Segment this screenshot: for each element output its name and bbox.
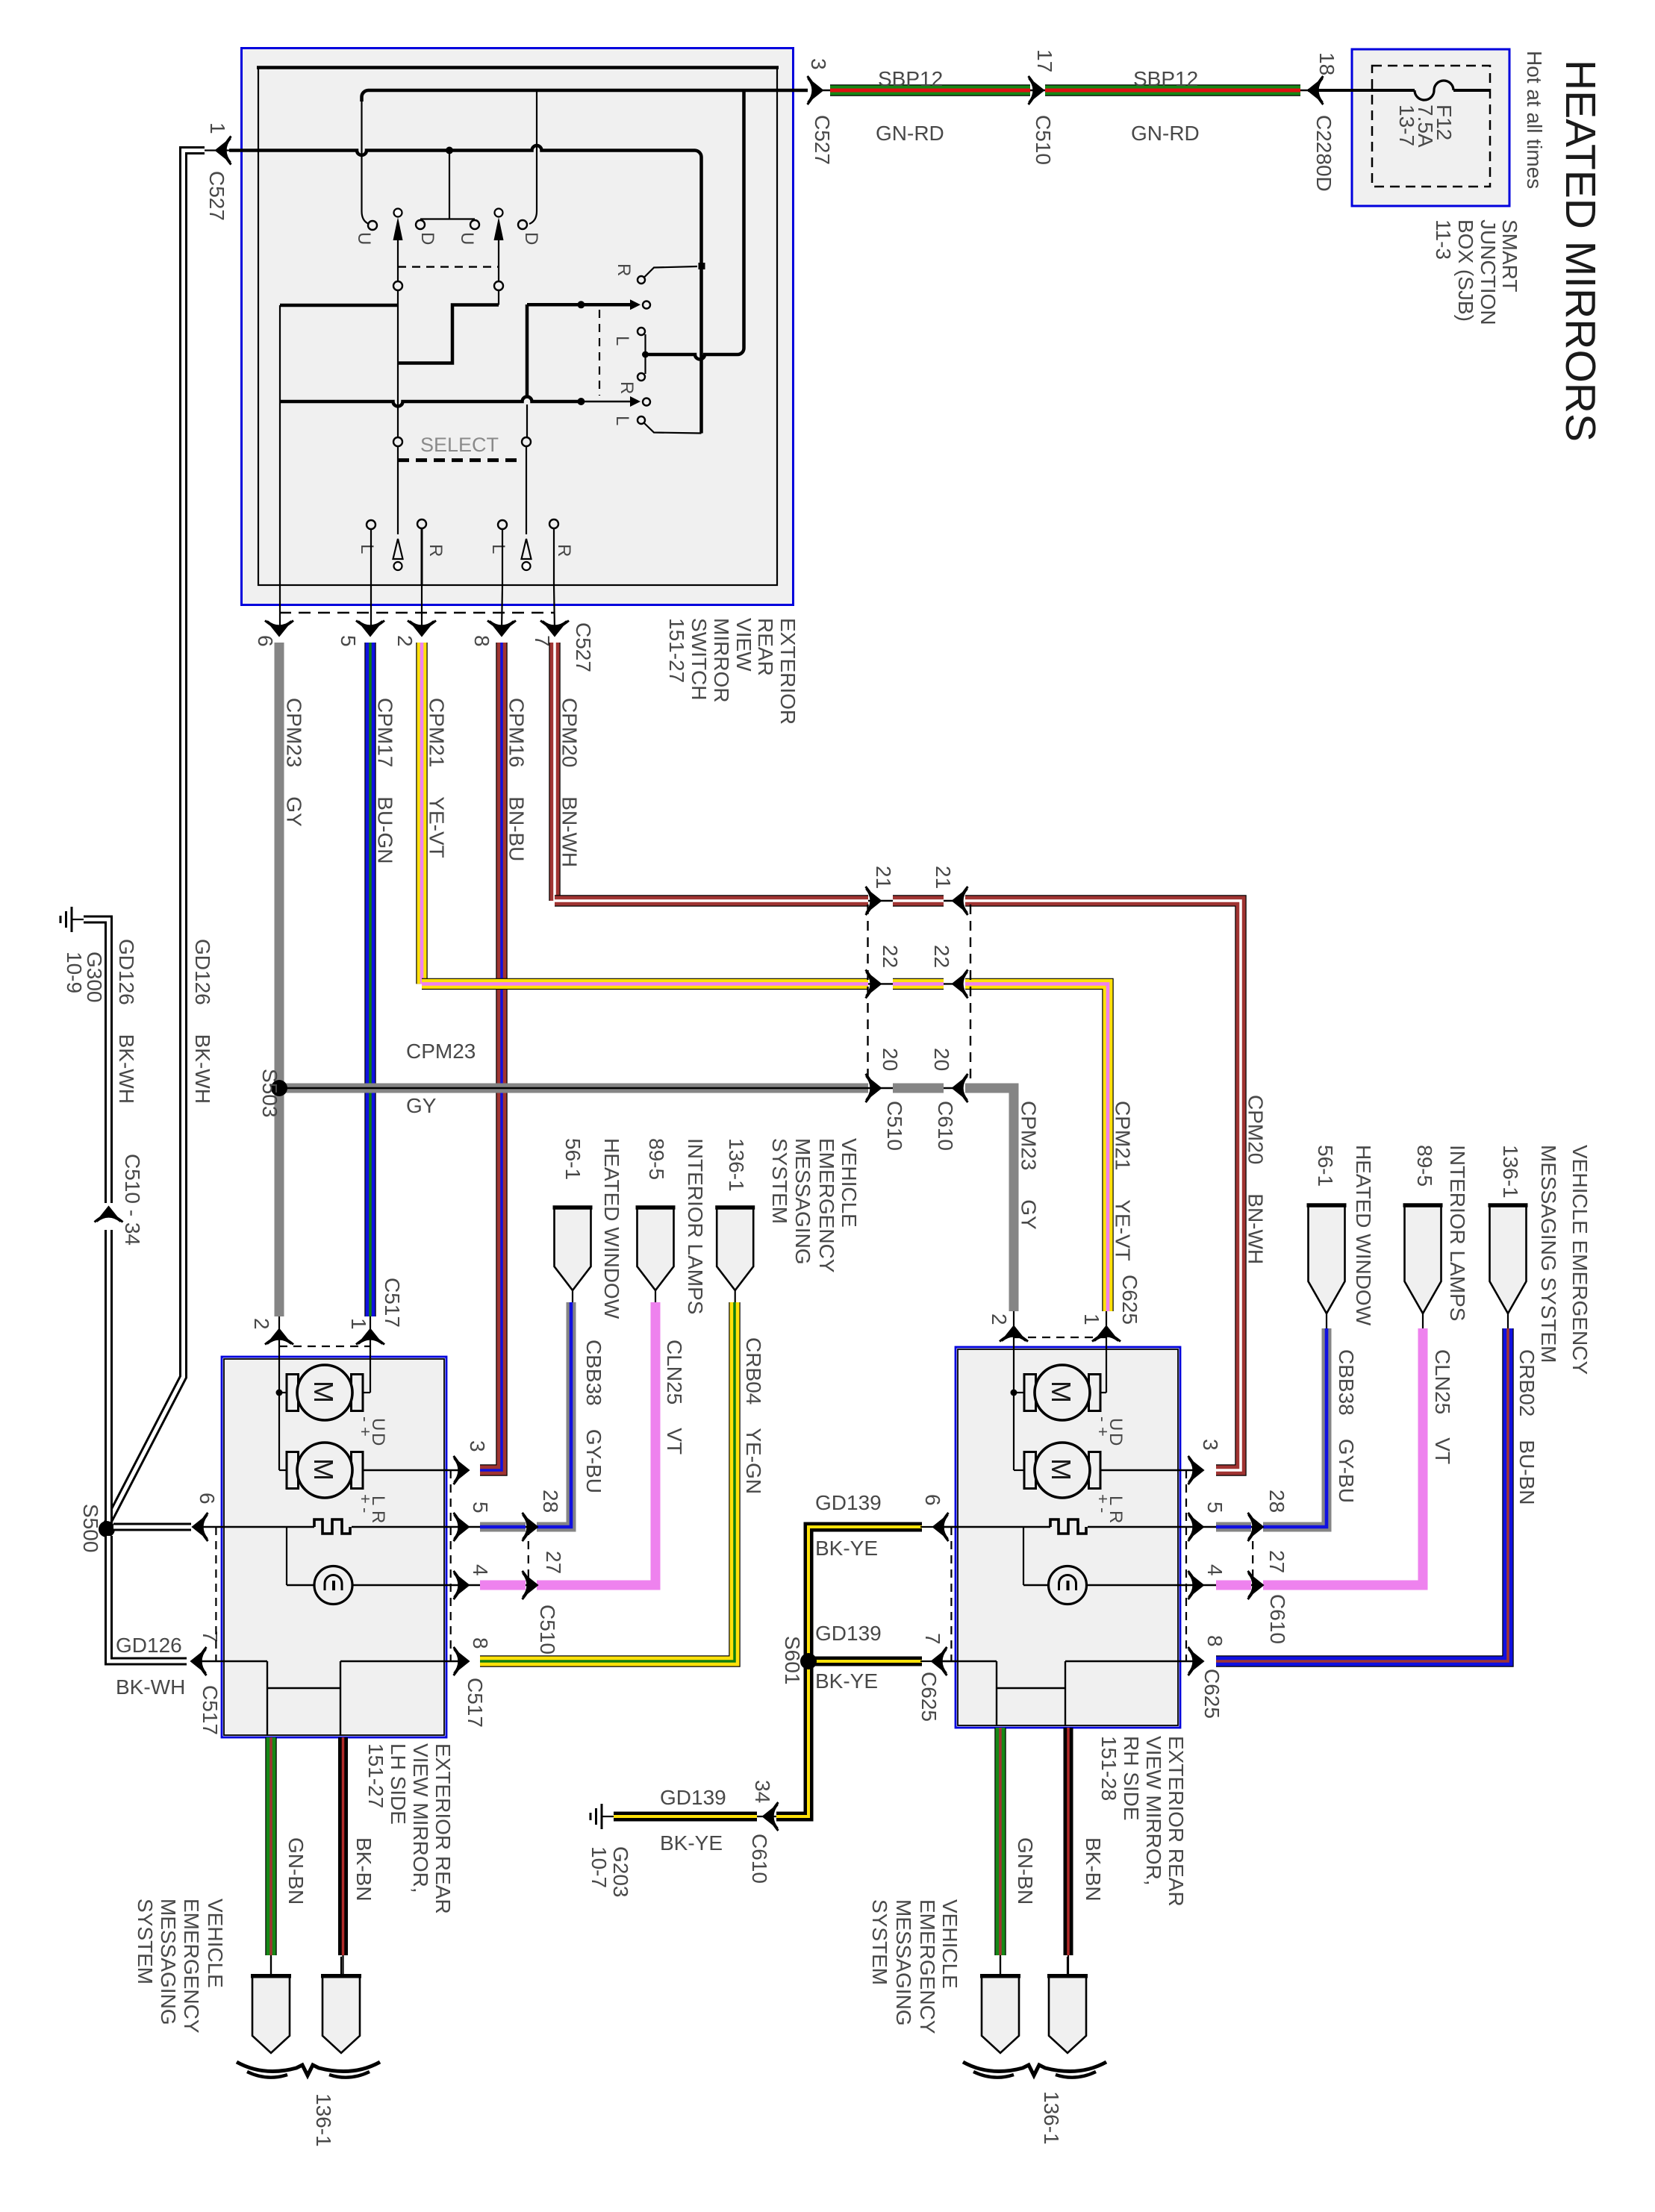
svg-text:2: 2 [988, 1313, 1011, 1325]
off-page connector HEATED WINDOW left [555, 1207, 591, 1290]
svg-text:BK-WH: BK-WH [116, 1675, 185, 1699]
wavy continuation mark right [963, 2062, 1106, 2075]
svg-text:21: 21 [932, 866, 955, 889]
svg-text:C610: C610 [934, 1101, 957, 1151]
wiper UD left [394, 209, 402, 217]
svg-text:20: 20 [930, 1048, 953, 1071]
wire GD139 BK-YE RH pin6 branch [776, 1527, 922, 1816]
off-page connector VEMS LH bottom 1 [270, 1957, 272, 1975]
svg-text:GD139: GD139 [815, 1491, 882, 1514]
gang dashed link UD [398, 266, 499, 267]
exterior rear view mirror RH box [956, 1347, 1180, 1728]
connector C510 pin 17 arrow [1029, 76, 1044, 104]
svg-text:SBP12: SBP12 [878, 67, 943, 90]
wire M2 to pin 3 LH [362, 1469, 463, 1471]
connector C527 pin 5 arrow [356, 621, 384, 637]
svg-text:C517: C517 [381, 1278, 404, 1328]
svg-text:27: 27 [542, 1551, 565, 1574]
svg-text:136-1: 136-1 [312, 2093, 335, 2147]
svg-text:7: 7 [199, 1631, 222, 1643]
wire CPM16 BN-BU vertical [480, 643, 502, 1470]
dashed connector line C510 [867, 905, 868, 1084]
svg-text:SELECT: SELECT [420, 434, 499, 456]
svg-text:8: 8 [1203, 1635, 1227, 1647]
svg-text:3: 3 [1199, 1439, 1222, 1451]
wire middle contacts to pin3 bus [646, 92, 744, 360]
svg-text:151-28: 151-28 [1097, 1736, 1121, 1801]
svg-text:5: 5 [337, 635, 360, 647]
ground G203 [601, 1804, 603, 1829]
wire BK-BN LH mirror to VEMS [338, 1737, 348, 1955]
svg-text:MESSAGING: MESSAGING [892, 1899, 915, 2026]
svg-text:C2280D: C2280D [1312, 115, 1335, 192]
svg-text:6: 6 [254, 635, 277, 647]
wires bottom contacts to connector [370, 529, 372, 585]
connector C610 pin21 arrow [953, 887, 968, 915]
svg-text:M: M [308, 1381, 339, 1403]
svg-text:C527: C527 [811, 115, 834, 165]
wire CPM17 BU-GN to LH mirror pin1 [364, 643, 375, 1316]
svg-text:M: M [1046, 1381, 1076, 1403]
wire CPM23 GY row20 segments [284, 1087, 959, 1089]
wiper2 pivot dot and arrow to L-R contact [577, 398, 585, 405]
svg-text:CRB02 BU-BN: CRB02 BU-BN [1515, 1349, 1539, 1505]
svg-text:6: 6 [921, 1494, 944, 1506]
svg-text:C527: C527 [572, 622, 595, 672]
svg-text:BK-BN: BK-BN [1082, 1837, 1105, 1902]
wire pin3 right drop to D contact [536, 92, 537, 211]
svg-text:R: R [614, 263, 634, 276]
wire GD126 BK-WH from C527 pin1 down to S500 [205, 149, 233, 151]
svg-text:GY: GY [406, 1094, 437, 1117]
svg-text:CPM23 GY: CPM23 GY [283, 698, 306, 827]
svg-text:CBB38 GY-BU: CBB38 GY-BU [1335, 1349, 1358, 1503]
contact circle D right [518, 220, 527, 229]
svg-text:EXTERIOR: EXTERIOR [776, 618, 800, 725]
dashed connector line C610 [970, 905, 971, 1084]
svg-text:7: 7 [921, 1633, 944, 1645]
connector C610 pin 27 arrow [1248, 1571, 1264, 1599]
C517 pin 6 arrow LH [193, 1513, 208, 1541]
lower pivot circles UD [393, 281, 402, 290]
svg-text:R: R [426, 544, 446, 557]
svg-text:89-5: 89-5 [1413, 1145, 1436, 1187]
svg-text:S500: S500 [79, 1504, 102, 1552]
off-page connector VEMS left [717, 1207, 753, 1290]
svg-text:C625: C625 [1200, 1669, 1224, 1719]
LH pin7 pin8 row and notch [197, 1660, 267, 1662]
svg-text:R: R [368, 1510, 388, 1523]
svg-text:L: L [368, 1496, 388, 1505]
svg-text:HEATED WINDOW: HEATED WINDOW [1352, 1145, 1375, 1326]
svg-text:C510 - 34: C510 - 34 [121, 1154, 144, 1246]
svg-text:VEHICLE EMERGENCY: VEHICLE EMERGENCY [1568, 1145, 1592, 1375]
svg-text:MIRROR: MIRROR [710, 618, 733, 703]
smart junction box (SJB) [1352, 49, 1509, 206]
exterior rear view mirror switch box [242, 49, 794, 605]
connector C610 pin22 arrow [953, 969, 968, 998]
C517 pin 1 arrow [370, 1316, 371, 1357]
svg-text:C610: C610 [1266, 1594, 1289, 1644]
off-page connector VEMS RH bottom 1 [1000, 1957, 1001, 1975]
connector C510 pin 28 arrow [523, 1513, 538, 1541]
svg-text:D: D [1106, 1433, 1126, 1446]
upper bus to R contact [526, 304, 529, 398]
svg-text:L: L [612, 416, 632, 425]
contact circle D left [416, 220, 425, 229]
wire CLN25 VT RH pin4 to C610-27 to interior lamps pentagon right [1197, 1584, 1268, 1586]
wire SBP12 GN-RD segment 2 [1045, 84, 1300, 96]
wire GN-BN RH mirror to VEMS [994, 1728, 1006, 1955]
C625 pin 6 arrow RH [920, 1526, 957, 1528]
C517 pin 7 arrow LH [191, 1647, 207, 1675]
svg-text:136-1: 136-1 [725, 1138, 748, 1192]
select circles [393, 437, 402, 446]
dashed connector C517 left [215, 1527, 216, 1661]
wire CPM20 BN-WH vertical [549, 643, 560, 901]
svg-text:GN-BN: GN-BN [1014, 1837, 1037, 1905]
wire switch pin 1 bus with hop loops [229, 146, 702, 434]
svg-text:RH SIDE: RH SIDE [1120, 1736, 1143, 1821]
svg-text:MESSAGING: MESSAGING [157, 1899, 180, 2025]
connector C2280D pin 18 arrow [1308, 76, 1324, 104]
connector C510 pin20 arrow [866, 1074, 882, 1102]
svg-text:GN-RD: GN-RD [1131, 122, 1200, 145]
svg-text:EMERGENCY: EMERGENCY [180, 1899, 203, 2034]
svg-text:22: 22 [879, 945, 902, 968]
svg-text:1: 1 [206, 122, 229, 134]
connector C510 pin 27 arrow [523, 1571, 538, 1599]
connector C510 pin22 arrow [866, 969, 882, 998]
svg-text:151-27: 151-27 [665, 618, 688, 683]
C625 pin 3 arrow RH [1188, 1456, 1204, 1484]
wire S500 down to LH mirror pin7 [109, 1536, 187, 1661]
svg-text:4: 4 [1203, 1564, 1227, 1576]
svg-text:28: 28 [1265, 1490, 1288, 1513]
wire CPM23 GY horizontal S503 to C510-20 [284, 1084, 868, 1093]
dashed connector C510 28-27 [528, 1527, 529, 1585]
splice S601 [800, 1653, 817, 1669]
connector C527 pin 1 arrow [216, 137, 231, 165]
RH motor UD wiring [1013, 1347, 1014, 1470]
svg-text:CPM23: CPM23 [406, 1040, 476, 1063]
splice S503 [271, 1080, 287, 1096]
bridge D-U to pin1 [420, 218, 475, 219]
svg-text:Hot at all times: Hot at all times [1523, 51, 1546, 189]
svg-text:4: 4 [469, 1564, 492, 1576]
heater resistor line RH pins 6-5 [933, 1526, 1050, 1528]
svg-text:C510: C510 [536, 1605, 559, 1655]
gang dashed link LR select [599, 310, 600, 396]
C517 pin 8 arrow LH [454, 1647, 470, 1675]
svg-text:CLN25 VT: CLN25 VT [663, 1340, 686, 1455]
svg-text:D: D [417, 232, 437, 245]
contact circle R top [638, 276, 645, 284]
svg-text:SYSTEM: SYSTEM [868, 1899, 891, 1985]
fuse F12 dashed box [1372, 66, 1490, 187]
svg-text:34: 34 [751, 1780, 774, 1803]
C625 pin 1 arrow [1106, 1311, 1107, 1347]
wire CPM23 GY switch to S503 to LH mirror pin2 [275, 643, 284, 1316]
svg-text:EXTERIOR REAR: EXTERIOR REAR [431, 1743, 455, 1914]
off-page connector VEMS LH bottom 2 [340, 1957, 342, 1975]
svg-text:CPM20 BN-WH: CPM20 BN-WH [1244, 1095, 1268, 1264]
svg-text:1: 1 [347, 1318, 370, 1330]
svg-text:MESSAGING: MESSAGING [791, 1138, 814, 1265]
svg-text:5: 5 [469, 1502, 492, 1513]
wiper UD right [495, 209, 503, 217]
connector C527 pin 6 arrow [265, 621, 293, 637]
svg-text:C610: C610 [748, 1834, 771, 1884]
svg-text:U: U [1106, 1418, 1126, 1431]
C517 pin 2 arrow [278, 1316, 280, 1357]
contact circle U right [470, 220, 479, 229]
svg-text:CPM23 GY: CPM23 GY [1017, 1101, 1041, 1230]
connector C527 pin 2 arrow [408, 621, 436, 637]
svg-text:5: 5 [1203, 1502, 1227, 1513]
select wiper left [397, 446, 399, 534]
contact circles L R middle [638, 328, 645, 335]
svg-text:C625: C625 [1118, 1275, 1141, 1325]
svg-text:VEHICLE: VEHICLE [838, 1138, 861, 1228]
svg-text:CLN25 VT: CLN25 VT [1431, 1349, 1454, 1464]
svg-text:151-27: 151-27 [364, 1743, 387, 1808]
svg-text:3: 3 [466, 1440, 489, 1452]
svg-text:C625: C625 [917, 1672, 941, 1722]
connector C527 pin 3 arrow [808, 76, 823, 104]
svg-text:28: 28 [539, 1490, 562, 1513]
svg-text:BOX (SJB): BOX (SJB) [1454, 219, 1477, 322]
svg-text:VIEW MIRROR,: VIEW MIRROR, [409, 1743, 432, 1893]
connector C527 switch dashed line [279, 612, 555, 613]
svg-text:EMERGENCY: EMERGENCY [815, 1138, 838, 1273]
svg-text:CPM21 YE-VT: CPM21 YE-VT [426, 698, 449, 858]
LH motor UD wiring [278, 1357, 280, 1470]
wire GD139 BK-YE to ground G203 [614, 1812, 757, 1822]
C625 pin 5 arrow RH [1188, 1513, 1204, 1541]
motor M up-down RH [1024, 1375, 1036, 1411]
svg-text:11-3: 11-3 [1432, 219, 1455, 260]
svg-text:D: D [368, 1433, 388, 1446]
wire CLN25 VT LH pin4 to C510-27 to interior lamps pentagon [463, 1584, 542, 1586]
svg-text:6: 6 [196, 1493, 219, 1505]
off-page connector INTERIOR LAMPS left [638, 1207, 674, 1290]
contact circle L bottom [638, 416, 645, 424]
svg-text:17: 17 [1033, 49, 1056, 72]
motor M left-right LH [287, 1452, 299, 1489]
svg-text:13-7: 13-7 [1395, 104, 1418, 146]
wire GN-BN LH mirror to VEMS [265, 1737, 276, 1955]
svg-text:SYSTEM: SYSTEM [768, 1138, 791, 1224]
svg-text:8: 8 [469, 1637, 492, 1649]
svg-text:CRB04 YE-GN: CRB04 YE-GN [742, 1337, 765, 1494]
wire CRB04 YE-GN LH pin8 to VEMS pentagon [480, 1302, 735, 1661]
svg-text:GN-BN: GN-BN [284, 1837, 308, 1905]
svg-text:BK-YE: BK-YE [815, 1669, 878, 1693]
C625 pin 7 arrow RH [920, 1660, 957, 1662]
svg-text:R: R [617, 381, 637, 394]
contact circle U left [368, 221, 377, 230]
svg-text:CPM16 BN-BU: CPM16 BN-BU [505, 698, 529, 861]
heater resistor line LH pins 6-5 [197, 1526, 314, 1528]
svg-text:MESSAGING SYSTEM: MESSAGING SYSTEM [1537, 1145, 1560, 1363]
svg-text:20: 20 [879, 1048, 902, 1071]
C625 pin 2 arrow [1013, 1311, 1014, 1347]
wire CPM21 YE-VT row22 segments [422, 983, 959, 984]
select dashed gang link [398, 458, 520, 462]
svg-text:SYSTEM: SYSTEM [134, 1899, 157, 1984]
connector C610 pin 34 arrow [757, 1816, 776, 1817]
svg-text:56-1: 56-1 [1314, 1145, 1337, 1187]
connector C610 pin20 arrow [953, 1074, 968, 1102]
wire W_A staircase left [397, 290, 399, 437]
svg-text:GD126: GD126 [116, 1634, 182, 1657]
RH pin7 pin8 row and notch [933, 1660, 997, 1662]
svg-text:C517: C517 [464, 1678, 487, 1728]
dashed connector C610 28-27 [1252, 1527, 1253, 1585]
svg-text:SMART: SMART [1498, 219, 1521, 293]
svg-text:LH SIDE: LH SIDE [387, 1743, 410, 1825]
wire W_B2 staircase right [498, 290, 499, 305]
svg-text:136-1: 136-1 [1499, 1145, 1522, 1199]
svg-text:8: 8 [470, 635, 493, 647]
connector C510 pin 34 arrow on ground wire [95, 1207, 123, 1222]
connector C527 pin 8 arrow [487, 621, 516, 637]
wire SBP12 GN-RD segment 1 [823, 90, 1308, 91]
connector C625 dashed top [1014, 1337, 1106, 1338]
svg-text:G203: G203 [609, 1846, 632, 1898]
svg-text:C527: C527 [205, 171, 228, 221]
svg-text:GN-RD: GN-RD [876, 122, 944, 145]
svg-text:1: 1 [1080, 1313, 1103, 1325]
wavy continuation mark left [237, 2062, 380, 2075]
wire CRB02 BU-BN RH pin8 to VEMS pentagon right [1216, 1328, 1508, 1661]
lamp branch RH [1023, 1527, 1024, 1585]
C625 pin 8 arrow RH [1188, 1647, 1204, 1675]
dashed connector C625 right [1185, 1470, 1187, 1661]
connector C527 pin 7 arrow [540, 621, 569, 637]
svg-text:HEATED MIRRORS: HEATED MIRRORS [1556, 60, 1604, 442]
svg-text:L: L [357, 544, 377, 554]
svg-text:C510: C510 [1032, 115, 1055, 165]
svg-text:S601: S601 [781, 1636, 804, 1684]
wire GD126 BK-WH from G300 to S500 [84, 919, 109, 1203]
svg-text:VIEW: VIEW [732, 618, 755, 672]
wire CPM20 BN-WH row21 segments [555, 900, 959, 902]
svg-text:L: L [488, 544, 508, 554]
wire M2 to pin 3 RH [1100, 1469, 1197, 1471]
C517 pin 4 arrow LH [454, 1571, 470, 1599]
dashed connector C625 left [950, 1527, 952, 1661]
wire CPM21 YE-VT vertical [416, 643, 427, 984]
svg-text:2: 2 [393, 635, 417, 647]
svg-text:M: M [308, 1458, 339, 1481]
svg-text:BK-YE: BK-YE [815, 1537, 878, 1560]
svg-text:REAR: REAR [754, 618, 777, 676]
lamp branch LH [286, 1527, 287, 1585]
off-page connector VEMS right [1490, 1205, 1527, 1313]
svg-text:INTERIOR LAMPS: INTERIOR LAMPS [1446, 1145, 1469, 1321]
wire CBB38 GY-BU LH pin5 to C510-28 to heated window pentagon [463, 1526, 542, 1528]
connector C610 pin 28 arrow [1248, 1513, 1264, 1541]
svg-text:56-1: 56-1 [561, 1138, 585, 1180]
bottom contact circles L R L R [367, 520, 375, 529]
motor M up-down LH [287, 1375, 299, 1411]
svg-text:GD126 BK-WH: GD126 BK-WH [191, 939, 214, 1104]
C625 pin 4 arrow RH [1188, 1571, 1204, 1599]
svg-text:EMERGENCY: EMERGENCY [916, 1899, 939, 2034]
dashed connector C517 right [450, 1470, 452, 1661]
svg-text:INTERIOR LAMPS: INTERIOR LAMPS [684, 1138, 707, 1314]
exterior rear view mirror LH box [222, 1357, 446, 1737]
wire BK-BN RH mirror to VEMS [1064, 1728, 1073, 1955]
svg-text:SBP12: SBP12 [1133, 67, 1198, 90]
svg-text:21: 21 [872, 866, 895, 889]
svg-text:JUNCTION: JUNCTION [1477, 219, 1500, 325]
C517 pin 5 arrow LH [454, 1513, 470, 1541]
svg-text:18: 18 [1315, 52, 1338, 75]
svg-text:S503: S503 [258, 1069, 281, 1117]
svg-text:VIEW MIRROR,: VIEW MIRROR, [1142, 1736, 1165, 1886]
svg-text:M: M [1046, 1458, 1076, 1481]
svg-text:R: R [1106, 1510, 1126, 1523]
svg-text:D: D [521, 232, 541, 245]
off-page connector HEATED WINDOW right [1309, 1205, 1345, 1313]
svg-text:U: U [368, 1418, 388, 1431]
connector C517 dashed top [279, 1346, 370, 1347]
splice S500 [99, 1521, 115, 1537]
svg-text:VEHICLE: VEHICLE [204, 1899, 227, 1988]
svg-text:CPM17 BU-GN: CPM17 BU-GN [374, 698, 397, 863]
svg-text:2: 2 [250, 1318, 273, 1330]
off-page connector VEMS RH bottom 2 [1067, 1957, 1068, 1975]
svg-text:CPM20 BN-WH: CPM20 BN-WH [558, 698, 582, 867]
svg-text:CPM21 YE-VT: CPM21 YE-VT [1112, 1101, 1135, 1261]
wire switch pin 3 bus [362, 90, 808, 101]
wire GD139 BK-YE RH pin7 branch [808, 1657, 922, 1666]
svg-text:89-5: 89-5 [645, 1138, 668, 1180]
svg-text:U: U [354, 232, 374, 245]
svg-text:C510: C510 [883, 1101, 906, 1151]
svg-text:SWITCH: SWITCH [688, 618, 711, 700]
svg-text:VEHICLE: VEHICLE [938, 1899, 961, 1989]
svg-text:EXTERIOR REAR: EXTERIOR REAR [1165, 1736, 1188, 1907]
svg-text:R: R [554, 544, 574, 557]
wire fuse internal [1453, 89, 1490, 92]
svg-text:GD139: GD139 [815, 1622, 882, 1645]
svg-text:136-1: 136-1 [1040, 2091, 1063, 2145]
svg-text:BK-YE: BK-YE [660, 1831, 723, 1855]
svg-text:10-7: 10-7 [587, 1846, 611, 1888]
svg-text:CBB38 GY-BU: CBB38 GY-BU [582, 1340, 605, 1493]
svg-text:10-9: 10-9 [63, 952, 86, 993]
svg-text:L: L [1106, 1496, 1126, 1505]
off-page connector INTERIOR LAMPS right [1405, 1205, 1441, 1313]
svg-text:C517: C517 [199, 1685, 222, 1735]
motor M left-right RH [1024, 1452, 1036, 1489]
svg-text:BK-BN: BK-BN [352, 1837, 375, 1902]
ground G300 [71, 907, 73, 932]
C517 pin 3 arrow LH [454, 1456, 470, 1484]
select wiper right [526, 446, 527, 534]
wire CBB38 GY-BU RH pin5 to C610-28 to heated window pentagon right [1197, 1526, 1268, 1528]
svg-text:GD126 BK-WH: GD126 BK-WH [115, 939, 138, 1104]
svg-text:3: 3 [807, 58, 830, 70]
svg-text:U: U [457, 232, 477, 245]
connector C510 pin21 arrow [866, 887, 882, 915]
junction dot pin1 bus to D-U bridge [446, 147, 453, 154]
svg-text:L: L [612, 336, 632, 346]
